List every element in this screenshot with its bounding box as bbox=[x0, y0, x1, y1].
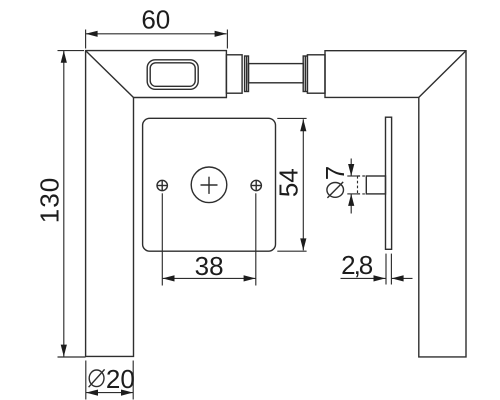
right handle outline bbox=[325, 51, 466, 357]
lever detail outer rounded rect bbox=[147, 60, 198, 90]
rosette front view bbox=[143, 118, 276, 251]
dimension diameter 20 bbox=[85, 361, 87, 400]
dimension diameter 7 bbox=[347, 175, 360, 177]
left collar bbox=[226, 55, 242, 93]
svg-text:20: 20 bbox=[106, 364, 135, 394]
svg-text:38: 38 bbox=[195, 251, 224, 281]
spindle hole cross bbox=[201, 184, 218, 186]
lever detail inner rounded rect bbox=[150, 63, 195, 87]
dimension 130 bbox=[63, 51, 65, 357]
svg-text:60: 60 bbox=[141, 5, 170, 35]
diameter symbol of O20 bbox=[89, 370, 104, 387]
spindle stub hidden dashed part bbox=[358, 175, 367, 177]
right handle miter line bbox=[419, 51, 466, 98]
left screw hole bbox=[157, 180, 167, 190]
svg-text:54: 54 bbox=[274, 168, 304, 197]
svg-text:7: 7 bbox=[320, 166, 350, 180]
right screw hole bbox=[251, 180, 261, 190]
dimension 54 bbox=[277, 117, 306, 119]
right ring bbox=[303, 56, 307, 92]
dimension 38 bbox=[161, 193, 163, 285]
spindle stub solid part bbox=[366, 176, 385, 194]
dimension 60 bbox=[86, 33, 227, 35]
left handle outline bbox=[86, 51, 227, 357]
spindle hole circle bbox=[191, 167, 227, 203]
right collar bbox=[307, 55, 325, 93]
rosette side view bar bbox=[386, 117, 392, 249]
left ring bbox=[245, 56, 249, 92]
left handle miter line bbox=[86, 51, 134, 98]
spindle bar bbox=[249, 64, 304, 83]
dimension 2,8 bbox=[385, 254, 387, 285]
diameter symbol of O7 bbox=[327, 183, 344, 198]
svg-text:2,8: 2,8 bbox=[341, 250, 373, 280]
svg-text:130: 130 bbox=[35, 177, 65, 223]
